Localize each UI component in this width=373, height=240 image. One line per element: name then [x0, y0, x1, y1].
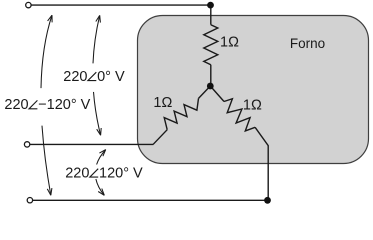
terminal: phase B [24, 142, 29, 147]
terminal: phase C [27, 198, 32, 203]
svg-text:−120° V: −120° V [38, 97, 90, 113]
oven enclosure box [138, 16, 369, 164]
wire: R1 to star point [210, 65, 212, 86]
label 220 angle -120 V [4, 97, 90, 113]
wire: R2 to phase B line [153, 130, 167, 145]
svg-text:1Ω: 1Ω [220, 34, 239, 50]
resistor R2 1 ohm (left leg) [164, 98, 198, 129]
svg-text:220: 220 [63, 69, 87, 85]
svg-text:120° V: 120° V [99, 166, 143, 182]
svg-text:220: 220 [65, 166, 89, 182]
svg-text:1Ω: 1Ω [153, 95, 172, 111]
wire: phase A top line [31, 4, 210, 6]
label 220 angle 120 V [65, 166, 143, 182]
svg-text:0° V: 0° V [97, 69, 125, 85]
resistor R3 1 ohm (right leg) [224, 99, 255, 131]
label 220 angle 0 V [63, 69, 125, 85]
svg-text:220: 220 [4, 97, 28, 113]
svg-text:Forno: Forno [290, 36, 325, 51]
resistor R1 1 ohm (vertical) [204, 25, 218, 65]
wire: phase C bottom line [33, 199, 268, 201]
terminal: phase A [26, 2, 31, 7]
voltage arrow 220 angle -120 (phase A to C) [41, 15, 52, 88]
wire: R3 to bottom node [255, 127, 268, 200]
wire: phase B middle line [30, 143, 153, 145]
svg-text:1Ω: 1Ω [243, 97, 262, 113]
node: top junction [207, 2, 214, 9]
wire: top node to R1 [210, 5, 212, 25]
wire: star point to R3 [210, 86, 224, 102]
voltage arrow 220 angle 120 (phase B to C) [97, 150, 106, 165]
voltage arrow 220 angle 0 (phase A to B) [93, 15, 100, 63]
node: bottom junction [264, 197, 271, 204]
node: star point [207, 83, 214, 90]
wire: star point to R2 [199, 86, 211, 98]
